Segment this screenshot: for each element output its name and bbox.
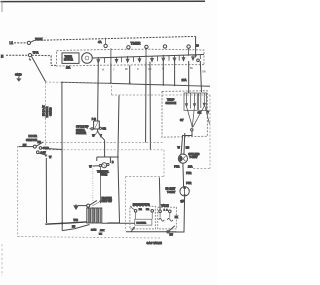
svg-text:GND: GND [15, 73, 23, 77]
svg-text:26: 26 [196, 43, 200, 47]
terminal circle L1 [27, 41, 30, 44]
svg-text:W-B: W-B [74, 220, 79, 222]
temp switch contacts [185, 93, 209, 127]
svg-text:L1: L1 [10, 41, 14, 45]
fuse left stub [96, 157, 98, 161]
wire x188.7 drop into temp box [188, 61, 190, 93]
svg-text:T-STAT: T-STAT [189, 156, 198, 159]
svg-text:N: N [1, 54, 4, 58]
contact G-W [37, 151, 40, 154]
fuse node bus [97, 156, 118, 158]
timer motor box [62, 53, 79, 64]
buzzer box [94, 121, 100, 129]
svg-text:B: B [112, 161, 114, 164]
svg-text:BLOWER: BLOWER [137, 223, 147, 225]
arrow into drive motor box [131, 227, 135, 232]
svg-text:MOTOR: MOTOR [64, 59, 73, 62]
wire cluster to drive motor box [102, 222, 135, 224]
fuse feed vertical [104, 140, 106, 157]
neutral bus wire [62, 82, 210, 86]
wire fuse to belt switch [99, 167, 101, 204]
wire x200 drop [200, 61, 201, 92]
wires temp box to cycling tstat [181, 131, 192, 155]
svg-text:FUSE: FUSE [101, 174, 108, 177]
drive motor box [130, 206, 156, 229]
svg-text:PUR: PUR [186, 182, 191, 185]
svg-text:BR: BR [38, 141, 42, 144]
wire timer x150 to console [149, 62, 151, 150]
svg-text:AUX: AUX [100, 229, 105, 232]
wire BU y230 [62, 225, 89, 231]
svg-text:W: W [89, 166, 92, 169]
wire x163 drop [162, 61, 164, 85]
svg-text:T-STAT: T-STAT [167, 191, 176, 194]
door switch blade [36, 142, 43, 146]
motor windings cluster [87, 208, 102, 223]
hi-limit t-stat [180, 187, 189, 196]
junction circle on bus [167, 231, 169, 233]
svg-text:Y: Y [113, 69, 115, 71]
svg-text:TEMP: TEMP [167, 97, 175, 101]
drive motor inner box [135, 219, 152, 225]
temp switch sub-rects [184, 93, 197, 110]
svg-text:R: R [137, 69, 139, 71]
ground at motor [78, 205, 87, 207]
svg-text:W: W [49, 156, 52, 159]
wire console to fuse node [118, 95, 119, 157]
blade into gas valve box [169, 226, 175, 231]
svg-text:24A: 24A [66, 66, 71, 69]
svg-text:GAS VALVE: GAS VALVE [147, 241, 162, 245]
svg-text:BK: BK [175, 216, 179, 219]
svg-text:BR: BR [203, 71, 207, 73]
svg-text:V: V [207, 111, 209, 114]
arrow tick under N circle [29, 58, 31, 60]
svg-text:W-R: W-R [33, 51, 39, 55]
labels under timer box [102, 68, 206, 73]
timer terminal circles [104, 44, 107, 47]
wire timer to buzzer x98 [97, 63, 100, 121]
wire L1 top run [34, 36, 195, 40]
svg-text:BK: BK [125, 69, 129, 71]
svg-text:P-B: P-B [92, 118, 96, 121]
svg-text:W: W [178, 147, 181, 150]
wire hi-limit down to gas valve bus [169, 196, 184, 232]
thick wire y223 [45, 222, 87, 224]
svg-text:25A: 25A [182, 78, 187, 82]
svg-text:PUR: PUR [174, 165, 179, 168]
wire BU lead [19, 146, 34, 148]
wire tstat down [182, 163, 185, 186]
svg-text:M1: M1 [139, 209, 143, 211]
timer motor circle [82, 53, 93, 64]
svg-text:MAIN: MAIN [91, 229, 97, 232]
svg-text:SWITCH: SWITCH [166, 101, 177, 105]
svg-text:BU: BU [23, 144, 27, 147]
svg-text:TIMER: TIMER [131, 41, 142, 45]
wire N lead [6, 54, 28, 56]
wire drop into timer right [195, 36, 197, 55]
svg-text:VALVE: VALVE [161, 204, 169, 207]
svg-text:BELT SW: BELT SW [102, 200, 113, 203]
svg-text:OR: OR [102, 127, 106, 130]
buzzer bottom wires [97, 129, 99, 132]
switch blade L1 [30, 40, 34, 42]
svg-text:PUR: PUR [186, 172, 191, 175]
console dashed box [18, 82, 210, 238]
gas valve coils box [158, 207, 177, 229]
door switch ground [39, 153, 46, 155]
junction dots on bus [97, 54, 189, 59]
svg-text:SWITCH: SWITCH [26, 138, 37, 142]
wire door path down left [45, 158, 47, 223]
wire N to timer corner [32, 55, 57, 65]
arrowhead [194, 55, 197, 58]
wire x174.6 drop [174, 61, 176, 85]
wire timer x146 to console [145, 62, 147, 143]
left long wire x62 [61, 83, 63, 231]
terminal circle N [28, 54, 31, 57]
svg-text:4A: 4A [98, 40, 102, 44]
gas valve left terminal feed [158, 178, 161, 211]
wire contact to x62 [42, 148, 62, 149]
svg-text:RD: RD [186, 146, 190, 149]
border top [1, 0, 206, 2]
timer inner terminal circle right [197, 59, 200, 62]
svg-text:BU: BU [170, 233, 174, 236]
svg-text:BK: BK [99, 233, 102, 235]
buzzer leads [91, 128, 93, 130]
svg-text:OR: OR [198, 111, 202, 114]
svg-text:GY: GY [180, 119, 184, 122]
svg-text:GUARD: GUARD [49, 107, 52, 116]
border left bottom dashed [1, 244, 3, 276]
wire L1 lead [14, 42, 27, 44]
timer internal bus [92, 55, 204, 59]
timer drop x110.9 to neutral [110, 63, 112, 83]
timer dashed box [57, 49, 205, 66]
temp switch box [162, 91, 207, 138]
junction dots neutral [61, 82, 176, 87]
gas valve coils [159, 218, 173, 221]
timer contacts group [97, 48, 200, 63]
svg-text:BU: BU [72, 226, 76, 228]
svg-text:M2: M2 [146, 209, 150, 211]
broken belt switch [87, 204, 90, 207]
cycling t-stat [178, 154, 187, 163]
svg-text:W: W [102, 70, 105, 72]
fuse right stub [109, 157, 111, 163]
wire fuse node down to motor bottom [108, 157, 120, 223]
svg-text:DRIVE MOTOR: DRIVE MOTOR [133, 204, 150, 207]
bottom bus wire [126, 231, 176, 233]
wrinkle guard label (rotated) [43, 105, 53, 118]
fuse W dotted drop [92, 169, 94, 208]
border left stub [1, 1, 3, 12]
svg-text:BUZZER: BUZZER [76, 132, 86, 135]
svg-text:2: 2 [166, 210, 168, 212]
switch blade N [32, 57, 46, 82]
timer drop x129.7 to neutral [129, 65, 131, 83]
door switch common [33, 145, 36, 148]
contact GY-R [39, 147, 42, 150]
svg-text:BU: BU [190, 68, 194, 70]
svg-text:26A: 26A [188, 165, 193, 168]
svg-text:1: 1 [164, 210, 166, 212]
